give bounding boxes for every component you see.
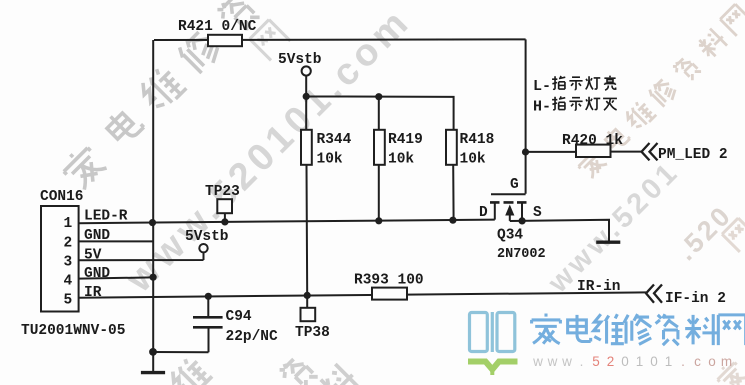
- svg-text:IR: IR: [84, 285, 102, 301]
- svg-text:10k: 10k: [388, 152, 414, 168]
- svg-text:R419: R419: [388, 132, 423, 148]
- svg-text:1: 1: [636, 354, 644, 369]
- svg-text:L-: L-: [533, 78, 551, 95]
- svg-text:IR-in: IR-in: [577, 279, 621, 295]
- svg-text:0: 0: [650, 354, 658, 369]
- svg-text:IF-in 2: IF-in 2: [665, 291, 726, 307]
- svg-text:1: 1: [64, 216, 73, 232]
- svg-text:m: m: [721, 354, 732, 369]
- svg-text:w: w: [532, 354, 543, 369]
- svg-text:CON16: CON16: [40, 189, 84, 205]
- svg-text:5Vstb: 5Vstb: [278, 52, 322, 68]
- svg-text:w: w: [547, 354, 558, 369]
- svg-text:TU2001WNV-05: TU2001WNV-05: [21, 323, 125, 339]
- svg-text:GND: GND: [84, 266, 110, 282]
- svg-text:.: .: [681, 354, 685, 369]
- svg-text:5: 5: [64, 293, 73, 309]
- svg-text:5: 5: [592, 354, 600, 369]
- svg-text:www.5201: www.5201: [542, 155, 686, 299]
- svg-text:o: o: [708, 354, 716, 369]
- svg-text:5Vstb: 5Vstb: [185, 229, 229, 245]
- svg-text:2N7002: 2N7002: [497, 247, 546, 262]
- svg-text:R393 100: R393 100: [354, 273, 424, 289]
- svg-text:.: .: [580, 354, 584, 369]
- svg-text:c: c: [694, 354, 701, 369]
- svg-text:10k: 10k: [460, 152, 486, 168]
- svg-text:Q34: Q34: [497, 228, 523, 244]
- svg-text:0: 0: [621, 354, 629, 369]
- svg-text:S: S: [533, 205, 542, 221]
- svg-text:LED-R: LED-R: [84, 209, 128, 225]
- svg-text:w: w: [561, 354, 572, 369]
- svg-text:PM_LED 2: PM_LED 2: [658, 147, 728, 163]
- svg-text:22p/NC: 22p/NC: [226, 329, 279, 345]
- svg-text:TP38: TP38: [295, 325, 330, 341]
- svg-text:R420 1k: R420 1k: [562, 133, 623, 149]
- svg-text:GND: GND: [84, 228, 110, 244]
- svg-text:3: 3: [64, 255, 73, 271]
- svg-text:4: 4: [64, 274, 73, 290]
- svg-text:R421 0/NC: R421 0/NC: [178, 19, 257, 35]
- svg-text:5V: 5V: [84, 248, 102, 264]
- svg-text:.520: .520: [671, 199, 738, 266]
- svg-text:10k: 10k: [317, 152, 343, 168]
- svg-text:R344: R344: [317, 132, 352, 148]
- svg-text:1: 1: [665, 354, 673, 369]
- svg-text:2: 2: [607, 354, 615, 369]
- svg-text:D: D: [479, 205, 488, 221]
- svg-text:R418: R418: [460, 132, 495, 148]
- svg-text:TP23: TP23: [205, 184, 240, 200]
- svg-text:C94: C94: [226, 309, 252, 325]
- svg-text:G: G: [510, 177, 519, 193]
- svg-text:2: 2: [64, 236, 73, 252]
- svg-text:H-: H-: [533, 99, 551, 116]
